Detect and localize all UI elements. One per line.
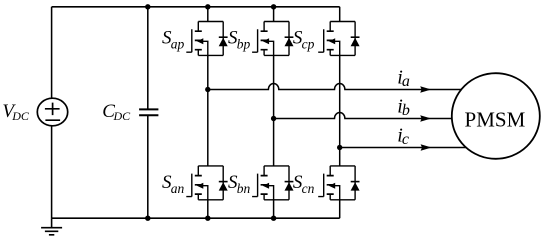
wire: Vdc branch upper bbox=[51, 7, 53, 99]
wire: leg a from top rail to upper switch bbox=[207, 7, 209, 22]
body diode of Sbp bbox=[285, 22, 294, 56]
transistor Scp bbox=[318, 22, 355, 56]
svg-text:bp: bp bbox=[237, 36, 251, 51]
ground bbox=[41, 218, 62, 235]
label ia bbox=[397, 67, 410, 91]
label San bbox=[162, 172, 184, 196]
svg-text:cn: cn bbox=[302, 181, 315, 196]
body diode of Scn bbox=[351, 166, 360, 200]
label CDC bbox=[102, 101, 131, 123]
top DC rail wire bbox=[52, 6, 340, 8]
transistor Sap bbox=[186, 22, 223, 56]
svg-text:cp: cp bbox=[302, 36, 315, 51]
label ic bbox=[397, 125, 409, 149]
junction dot: bottom rail / leg a bbox=[205, 216, 210, 221]
label VDC bbox=[2, 101, 29, 123]
svg-text:DC: DC bbox=[113, 109, 132, 123]
arrow ic bbox=[421, 144, 432, 151]
wire: leg a midsection (phase node) bbox=[207, 55, 209, 165]
svg-text:bn: bn bbox=[237, 181, 251, 196]
svg-text:PMSM: PMSM bbox=[465, 108, 526, 132]
arrow ia bbox=[420, 86, 431, 93]
label Sbn bbox=[228, 172, 250, 196]
wire: phase a line with crossover hops bbox=[208, 84, 463, 90]
junction dot: phase a node bbox=[205, 87, 210, 92]
label Scp bbox=[293, 28, 315, 52]
junction dot: bottom rail / Cdc bbox=[145, 216, 150, 221]
capacitor CDC bbox=[139, 109, 158, 115]
wire: phase b line with crossover hop bbox=[274, 113, 453, 119]
body diode of San bbox=[219, 166, 228, 200]
label ib bbox=[397, 96, 410, 120]
motor PMSM bbox=[452, 73, 540, 159]
svg-text:c: c bbox=[402, 131, 409, 148]
voltage source VDC bbox=[37, 98, 67, 126]
wire: leg b from top rail to upper switch bbox=[273, 7, 275, 22]
wire: phase c line bbox=[340, 147, 467, 149]
wire: leg c midsection (phase node) bbox=[339, 55, 341, 165]
svg-text:an: an bbox=[171, 181, 185, 196]
arrow ib bbox=[420, 115, 431, 122]
transistor Sbn bbox=[252, 166, 289, 200]
wire: leg b from lower switch to bottom rail bbox=[273, 200, 275, 218]
wire: leg a from lower switch to bottom rail bbox=[207, 200, 209, 218]
wire: Cdc branch upper bbox=[147, 7, 149, 218]
junction dot: bottom rail / leg b bbox=[271, 216, 276, 221]
label Scn bbox=[293, 172, 315, 196]
transistor Scn bbox=[318, 166, 355, 200]
junction dot: top rail / leg b bbox=[271, 4, 276, 9]
label Sbp bbox=[228, 28, 250, 52]
svg-text:a: a bbox=[402, 73, 410, 90]
transistor San bbox=[186, 166, 223, 200]
body diode of Scp bbox=[351, 22, 360, 56]
body diode of Sap bbox=[219, 22, 228, 56]
wire: Vdc branch lower bbox=[51, 126, 53, 219]
body diode of Sbn bbox=[285, 166, 294, 200]
junction dot: phase c node bbox=[337, 145, 342, 150]
transistor Sbp bbox=[252, 22, 289, 56]
bottom DC rail wire bbox=[52, 217, 340, 219]
wire: leg c from lower switch to bottom rail bbox=[339, 200, 341, 218]
junction dot: top rail / leg a bbox=[205, 4, 210, 9]
svg-text:b: b bbox=[402, 102, 410, 119]
junction dot: phase b node bbox=[271, 116, 276, 121]
wire: leg c from top rail to upper switch bbox=[339, 7, 341, 22]
label Sap bbox=[162, 28, 184, 52]
svg-text:ap: ap bbox=[171, 36, 185, 51]
svg-text:DC: DC bbox=[11, 109, 30, 123]
junction dot: top rail / Cdc bbox=[145, 4, 150, 9]
wire: leg b midsection (phase node) bbox=[273, 55, 275, 165]
